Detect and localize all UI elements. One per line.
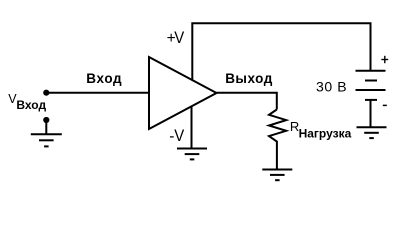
svg-text:Нагрузка: Нагрузка	[299, 127, 352, 141]
svg-text:Вход: Вход	[16, 98, 46, 112]
svg-text:Вход: Вход	[86, 71, 122, 86]
svg-text:V: V	[174, 29, 184, 47]
svg-text:Выход: Выход	[225, 71, 273, 86]
svg-text:30 В: 30 В	[316, 79, 347, 95]
svg-text:V: V	[174, 127, 184, 145]
